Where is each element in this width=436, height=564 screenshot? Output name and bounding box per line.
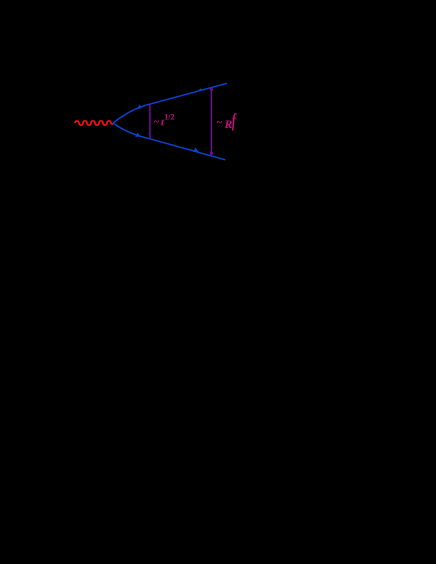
- svg-text:~: ~: [154, 117, 160, 128]
- svg-text:1/2: 1/2: [164, 113, 174, 122]
- photon wavy line (gamma*): [75, 121, 113, 125]
- arrow on upper line (right): [196, 88, 202, 92]
- arrow on lower line (right): [193, 148, 199, 152]
- vertex dot bottom of gluon 2: [210, 152, 213, 155]
- arrow on lower line (left): [135, 133, 140, 137]
- label ~ t^(1/2): [154, 113, 175, 129]
- vertex dot top of gluon 2: [210, 88, 213, 91]
- antiquark line (lower): [113, 123, 225, 160]
- arrow on upper line (left): [137, 104, 142, 108]
- gluon line 2: [210, 89, 212, 155]
- gluon line 1: [149, 103, 151, 139]
- svg-text:~: ~: [217, 118, 223, 129]
- quark line (upper): [113, 83, 227, 123]
- label ~ R_f: [217, 111, 237, 132]
